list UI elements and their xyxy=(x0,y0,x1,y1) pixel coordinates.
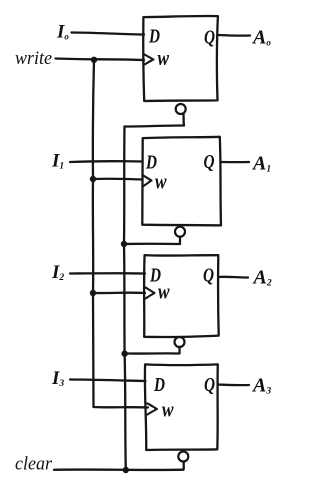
FF3 clock-style w input triangle xyxy=(148,404,158,415)
junction dot clear rail/FF2 bubble xyxy=(121,350,127,356)
wire FF2 Q to A2 xyxy=(219,276,249,279)
FF3 active-low clear bubble xyxy=(178,452,188,462)
wire clear vertical rail xyxy=(124,127,126,471)
D flip-flop FF1 body xyxy=(142,137,221,226)
svg-text:w: w xyxy=(158,279,170,304)
wire write rail to FF1 w input xyxy=(93,178,142,181)
FF0 active-low clear bubble xyxy=(176,104,186,114)
D flip-flop FF2 body xyxy=(144,255,219,337)
wire FF2 clear bubble to clear rail xyxy=(125,347,180,354)
wire write rail to FF3 w input xyxy=(94,406,149,409)
wire I1 to FF1 D input xyxy=(70,160,142,163)
svg-text:D: D xyxy=(153,374,165,396)
wire FF0 Q to A0 xyxy=(218,34,250,37)
junction dot clear rail/clear wire xyxy=(123,467,129,473)
svg-text:I1: I1 xyxy=(51,151,64,172)
wire clear input xyxy=(54,468,184,471)
junction dot write/FF1 w xyxy=(90,176,96,182)
junction dot write/FF0 w xyxy=(91,57,97,63)
wire write vertical rail xyxy=(93,60,94,407)
wire write rail to FF2 w input xyxy=(93,292,145,295)
junction dot write/FF2 w xyxy=(90,290,96,296)
wire FF3 Q to A3 xyxy=(218,383,249,386)
svg-text:Q: Q xyxy=(204,27,215,49)
svg-text:Io: Io xyxy=(56,22,69,43)
svg-text:Q: Q xyxy=(204,151,215,173)
FF1 active-low clear bubble xyxy=(175,227,185,237)
svg-text:Ao: Ao xyxy=(251,27,271,49)
svg-text:w: w xyxy=(155,169,167,194)
junction dot clear rail/FF1 bubble xyxy=(121,241,127,247)
D flip-flop FF3 body xyxy=(145,364,218,450)
wire FF0 clear bubble to clear rail xyxy=(125,114,185,127)
FF1 clock-style w input triangle xyxy=(143,175,152,187)
svg-text:Q: Q xyxy=(204,374,215,396)
svg-text:A1: A1 xyxy=(251,153,271,175)
svg-text:A3: A3 xyxy=(251,375,271,397)
wire I0 to FF0 D input xyxy=(72,33,145,35)
wire I3 to FF3 D input xyxy=(70,380,146,382)
wire write to FF0 w input xyxy=(56,59,145,61)
D flip-flop FF0 body xyxy=(143,16,218,101)
wire FF1 clear bubble to clear rail xyxy=(124,237,180,244)
FF0 clock-style w input triangle xyxy=(145,55,154,65)
svg-text:I2: I2 xyxy=(51,262,64,283)
svg-text:write: write xyxy=(15,48,52,69)
svg-text:A2: A2 xyxy=(252,267,272,289)
svg-text:I3: I3 xyxy=(51,368,64,389)
FF2 clock-style w input triangle xyxy=(146,288,155,299)
wire FF1 Q to A1 xyxy=(221,161,250,163)
wire FF3 clear bubble to clear wire xyxy=(182,462,185,470)
svg-text:Q: Q xyxy=(203,265,214,287)
svg-text:w: w xyxy=(162,397,174,422)
svg-text:clear: clear xyxy=(15,454,53,475)
wire I2 to FF2 D input xyxy=(70,272,145,275)
FF2 active-low clear bubble xyxy=(175,337,185,347)
svg-text:w: w xyxy=(158,45,170,70)
